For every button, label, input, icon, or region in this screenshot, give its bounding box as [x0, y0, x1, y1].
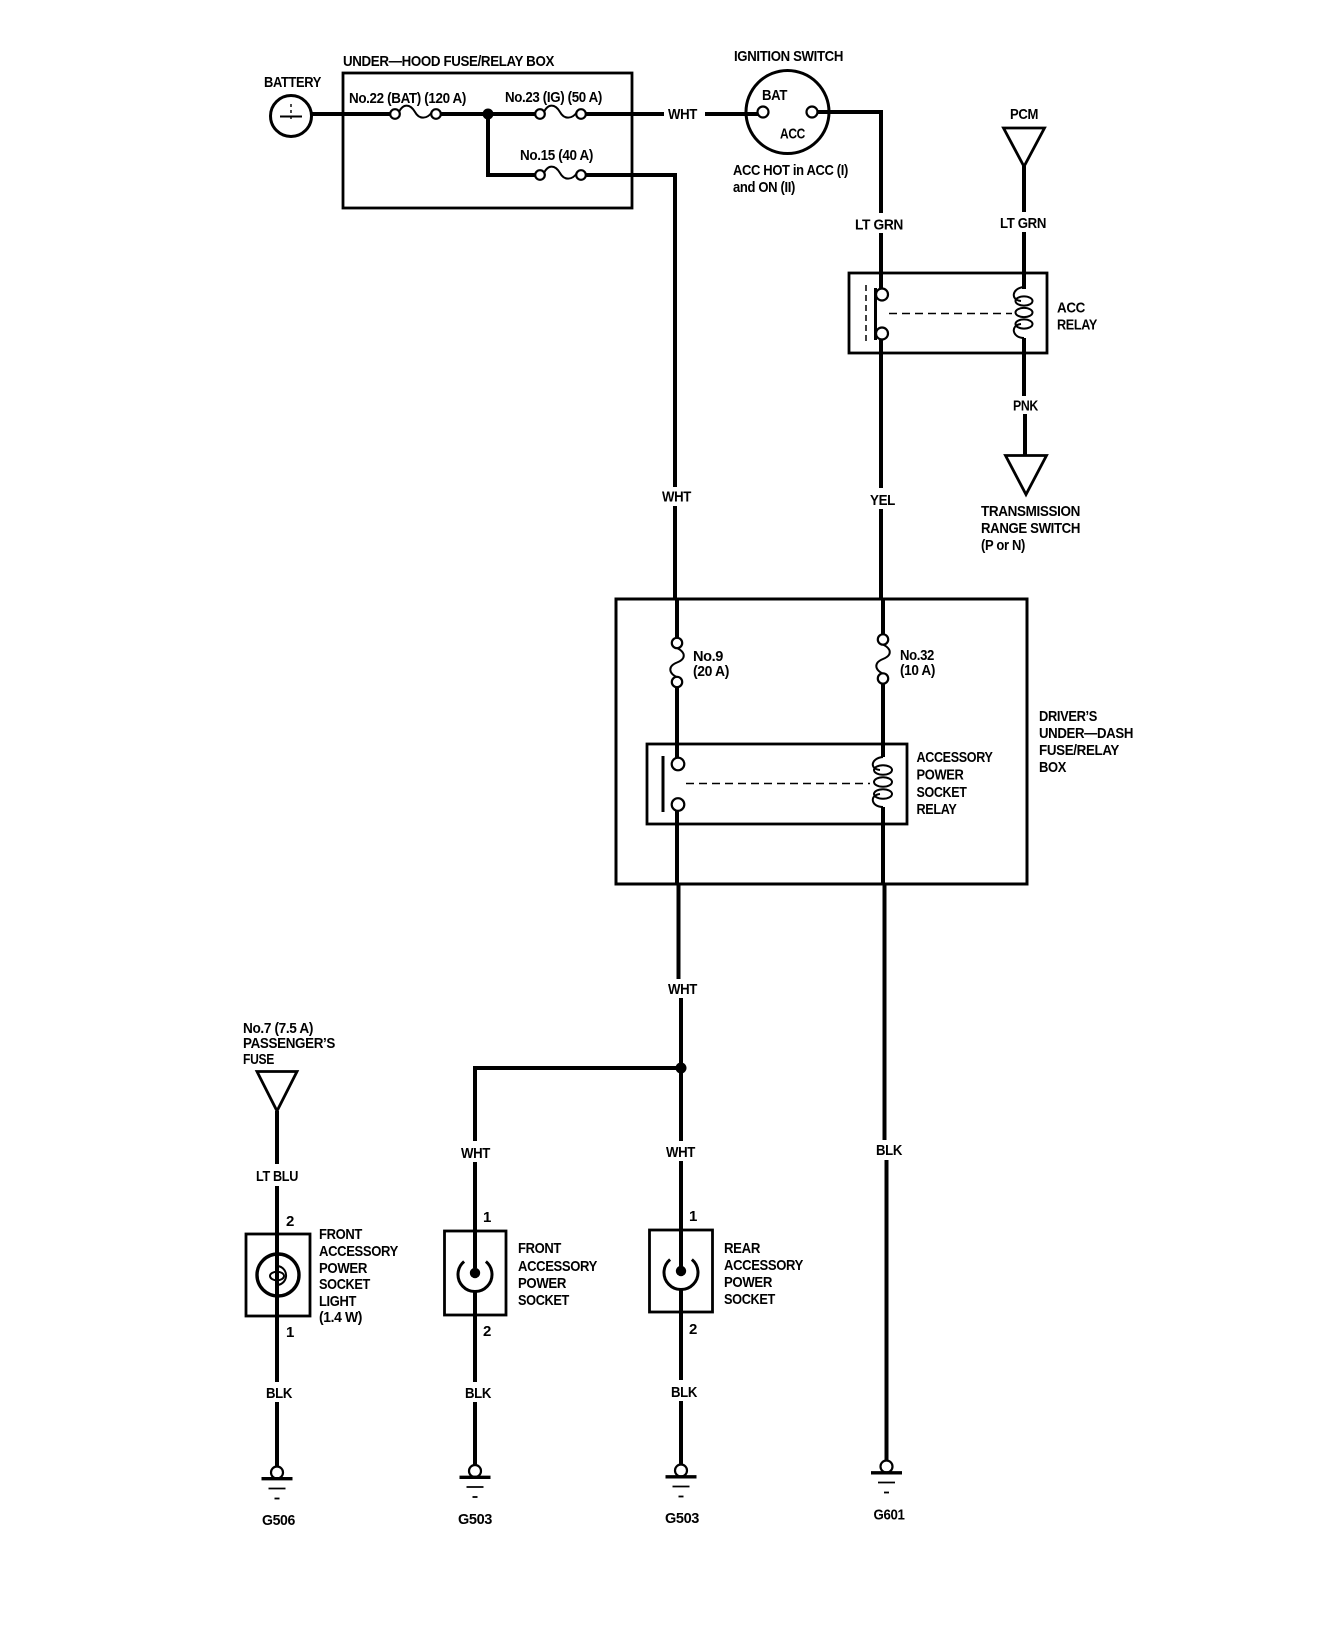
- wire LT BLU to light pin 2: [275, 1186, 279, 1240]
- fuse No.9 (20 A): [670, 638, 729, 687]
- svg-text:WHT: WHT: [668, 981, 697, 998]
- fuse No.32 (10 A): [876, 634, 935, 683]
- svg-text:IGNITION SWITCH: IGNITION SWITCH: [734, 48, 843, 65]
- relay U2 coil: [873, 757, 892, 807]
- wire BLK to ground G506: [275, 1402, 279, 1467]
- svg-text:FRONT: FRONT: [518, 1240, 561, 1257]
- svg-text:G506: G506: [262, 1512, 295, 1529]
- wire fuse23 to WHT label: [586, 112, 664, 116]
- wire rear socket to BLK: [679, 1289, 683, 1380]
- driver's under-dash fuse/relay box: [616, 599, 1133, 884]
- svg-text:POWER: POWER: [319, 1260, 367, 1277]
- svg-text:ACC: ACC: [1057, 300, 1085, 317]
- ACC relay coil: [1014, 287, 1033, 338]
- wire fuse No.9 to relay: [675, 687, 679, 758]
- svg-text:(10 A): (10 A): [900, 662, 935, 679]
- svg-text:LIGHT: LIGHT: [319, 1293, 356, 1310]
- svg-text:ACCESSORY: ACCESSORY: [518, 1258, 597, 1275]
- relay U2 dashed link: [686, 783, 870, 785]
- wire YEL to under-dash box: [879, 509, 883, 600]
- wire fuse15 out of box, down long WHT run: [586, 175, 675, 487]
- ground G503 rear: [665, 1465, 699, 1528]
- ACC relay armature bar: [874, 288, 877, 340]
- svg-text:BLK: BLK: [465, 1385, 491, 1402]
- svg-text:SOCKET: SOCKET: [518, 1292, 569, 1309]
- svg-text:ACCESSORY: ACCESSORY: [724, 1257, 803, 1274]
- svg-text:LT GRN: LT GRN: [1000, 215, 1046, 232]
- svg-text:PASSENGER’S: PASSENGER’S: [243, 1035, 335, 1052]
- svg-text:No.22 (BAT) (120 A): No.22 (BAT) (120 A): [349, 90, 466, 107]
- wire front socket to BLK: [473, 1291, 477, 1382]
- svg-text:BAT: BAT: [762, 87, 787, 104]
- relay U2 armature bar: [662, 756, 665, 812]
- svg-text:RANGE SWITCH: RANGE SWITCH: [981, 520, 1080, 537]
- svg-text:BLK: BLK: [671, 1384, 697, 1401]
- wire light to BLK: [275, 1316, 279, 1382]
- svg-text:1: 1: [689, 1208, 697, 1225]
- svg-text:SOCKET: SOCKET: [724, 1291, 775, 1308]
- wire branch to front socket: [475, 1068, 681, 1141]
- accessory power socket relay box U2: [647, 744, 993, 824]
- wire ignition ACC to LT GRN: [818, 112, 882, 213]
- svg-text:No.15 (40 A): No.15 (40 A): [520, 147, 593, 164]
- svg-text:POWER: POWER: [724, 1274, 772, 1291]
- svg-text:BATTERY: BATTERY: [264, 74, 321, 91]
- svg-text:G601: G601: [874, 1507, 905, 1524]
- wire LT GRN to ACC relay: [879, 233, 883, 289]
- wire ACC relay coil to PNK: [1022, 338, 1026, 396]
- svg-text:LT GRN: LT GRN: [855, 217, 903, 234]
- ACC relay contact pins: [876, 289, 888, 301]
- svg-text:WHT: WHT: [662, 489, 691, 506]
- wire relay U2 coil down and out of box (BLK run): [881, 807, 885, 884]
- svg-text:2: 2: [286, 1213, 294, 1230]
- fuse No.15 (40 A): [520, 147, 593, 180]
- under-hood fuse/relay box: [343, 53, 632, 208]
- svg-text:2: 2: [689, 1321, 697, 1338]
- wire WHT label to ignition switch: [705, 112, 758, 116]
- svg-text:BLK: BLK: [266, 1385, 292, 1402]
- wire BLK to ground G601: [885, 1160, 889, 1460]
- svg-text:POWER: POWER: [917, 767, 964, 784]
- ACC relay dashed frame line: [865, 285, 867, 345]
- svg-text:ACCESSORY: ACCESSORY: [917, 749, 993, 766]
- ACC relay dashed link: [889, 313, 1012, 315]
- svg-text:BOX: BOX: [1039, 759, 1066, 776]
- svg-text:YEL: YEL: [870, 492, 895, 509]
- svg-text:G503: G503: [665, 1510, 699, 1527]
- ground G506: [262, 1467, 296, 1530]
- wire ACC relay to YEL: [879, 340, 883, 488]
- transmission range switch connector: [981, 456, 1080, 555]
- ACC relay box U1: [849, 273, 1097, 353]
- svg-text:1: 1: [483, 1209, 491, 1226]
- wire PCM to LT GRN: [1022, 166, 1026, 212]
- svg-text:G503: G503: [458, 1511, 492, 1528]
- passenger's fuse connector: [243, 1020, 335, 1111]
- svg-text:ACCESSORY: ACCESSORY: [319, 1243, 398, 1260]
- wire fuse22 to junction: [441, 112, 536, 116]
- svg-text:SOCKET: SOCKET: [319, 1276, 370, 1293]
- svg-text:WHT: WHT: [668, 106, 697, 123]
- wire LT GRN to ACC relay coil: [1022, 232, 1026, 289]
- svg-text:WHT: WHT: [666, 1144, 695, 1161]
- svg-text:RELAY: RELAY: [917, 801, 957, 818]
- wire BLK to ground G503 front: [473, 1402, 477, 1465]
- wire PNK to transmission range switch: [1023, 414, 1027, 456]
- svg-text:BLK: BLK: [876, 1142, 902, 1159]
- svg-text:SOCKET: SOCKET: [917, 784, 967, 801]
- svg-text:POWER: POWER: [518, 1275, 566, 1292]
- svg-text:REAR: REAR: [724, 1240, 760, 1257]
- battery: [264, 74, 321, 137]
- svg-text:LT BLU: LT BLU: [256, 1168, 298, 1185]
- wire WHT to under-dash box: [673, 506, 677, 600]
- wire relay U2 contact down to WHT label: [675, 811, 679, 884]
- wire under-dash box top to fuse No.32: [881, 599, 885, 635]
- svg-text:WHT: WHT: [461, 1145, 490, 1162]
- fuse No.23 (IG) (50 A): [505, 89, 602, 119]
- wire BLK to ground G503 rear: [679, 1401, 683, 1464]
- wire into fuse No.9: [675, 599, 679, 639]
- wire WHT to front socket pin 1: [473, 1162, 477, 1268]
- svg-text:PNK: PNK: [1013, 398, 1038, 415]
- svg-text:(1.4 W): (1.4 W): [319, 1309, 362, 1326]
- svg-text:FUSE/RELAY: FUSE/RELAY: [1039, 742, 1119, 759]
- wire junction to fuse No.15: [488, 114, 536, 175]
- relay U2 contact pins: [672, 758, 685, 771]
- wire battery to fuse box: [311, 112, 390, 116]
- svg-text:ACC: ACC: [780, 126, 805, 143]
- ground G503 front: [458, 1465, 492, 1528]
- svg-text:and ON (II): and ON (II): [733, 179, 795, 196]
- front accessory power socket light: [246, 1226, 398, 1326]
- node junction B: [676, 1063, 687, 1074]
- svg-text:TRANSMISSION: TRANSMISSION: [981, 503, 1080, 520]
- node junction A: [483, 109, 494, 120]
- ground G601: [871, 1461, 905, 1524]
- svg-text:FUSE: FUSE: [243, 1051, 274, 1068]
- svg-text:RELAY: RELAY: [1057, 317, 1097, 334]
- wire WHT to junction B: [679, 998, 683, 1069]
- wire WHT to rear socket pin 1: [679, 1161, 683, 1267]
- svg-text:PCM: PCM: [1010, 106, 1038, 123]
- PCM connector: [1004, 106, 1045, 167]
- ignition switch: [733, 48, 848, 196]
- fuse No.22 (BAT) (120 A): [349, 90, 466, 119]
- svg-text:UNDER—HOOD FUSE/RELAY BOX: UNDER—HOOD FUSE/RELAY BOX: [343, 53, 554, 70]
- svg-text:(P or N): (P or N): [981, 537, 1025, 554]
- rear accessory power socket: [650, 1230, 804, 1312]
- wire junction B to rear socket: [679, 1068, 683, 1141]
- wire fuse to LT BLU: [275, 1111, 279, 1164]
- svg-text:UNDER—DASH: UNDER—DASH: [1039, 725, 1133, 742]
- front accessory power socket: [445, 1231, 598, 1315]
- svg-text:(20 A): (20 A): [693, 663, 729, 680]
- wire fuse No.32 to relay coil: [881, 684, 885, 757]
- svg-text:DRIVER’S: DRIVER’S: [1039, 708, 1097, 725]
- svg-text:FRONT: FRONT: [319, 1226, 362, 1243]
- svg-text:2: 2: [483, 1323, 491, 1340]
- svg-text:1: 1: [286, 1324, 294, 1341]
- svg-text:No.23 (IG) (50 A): No.23 (IG) (50 A): [505, 89, 602, 106]
- svg-text:ACC HOT in ACC (I): ACC HOT in ACC (I): [733, 162, 848, 179]
